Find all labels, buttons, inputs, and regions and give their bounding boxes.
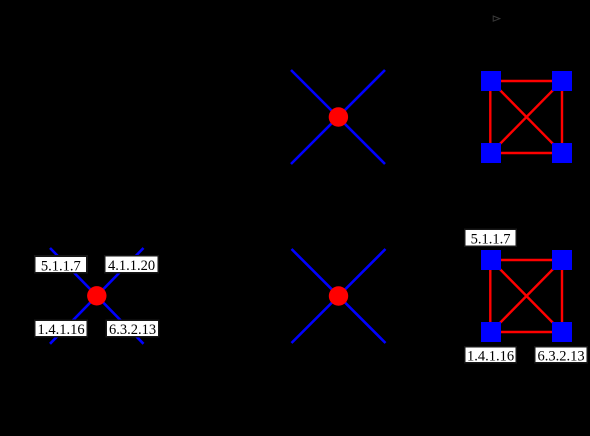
svg-text:1.4.1.16: 1.4.1.16 xyxy=(37,322,84,338)
svg-text:6.3.2.13: 6.3.2.13 xyxy=(109,322,156,338)
svg-text:5.1.1.7: 5.1.1.7 xyxy=(471,232,511,248)
svg-text:5.1.1.7: 5.1.1.7 xyxy=(41,258,81,274)
svg-text:4.1.1.20: 4.1.1.20 xyxy=(108,258,155,274)
svg-text:1.4.1.16: 1.4.1.16 xyxy=(467,348,514,364)
svg-text:6.3.2.13: 6.3.2.13 xyxy=(537,348,584,364)
